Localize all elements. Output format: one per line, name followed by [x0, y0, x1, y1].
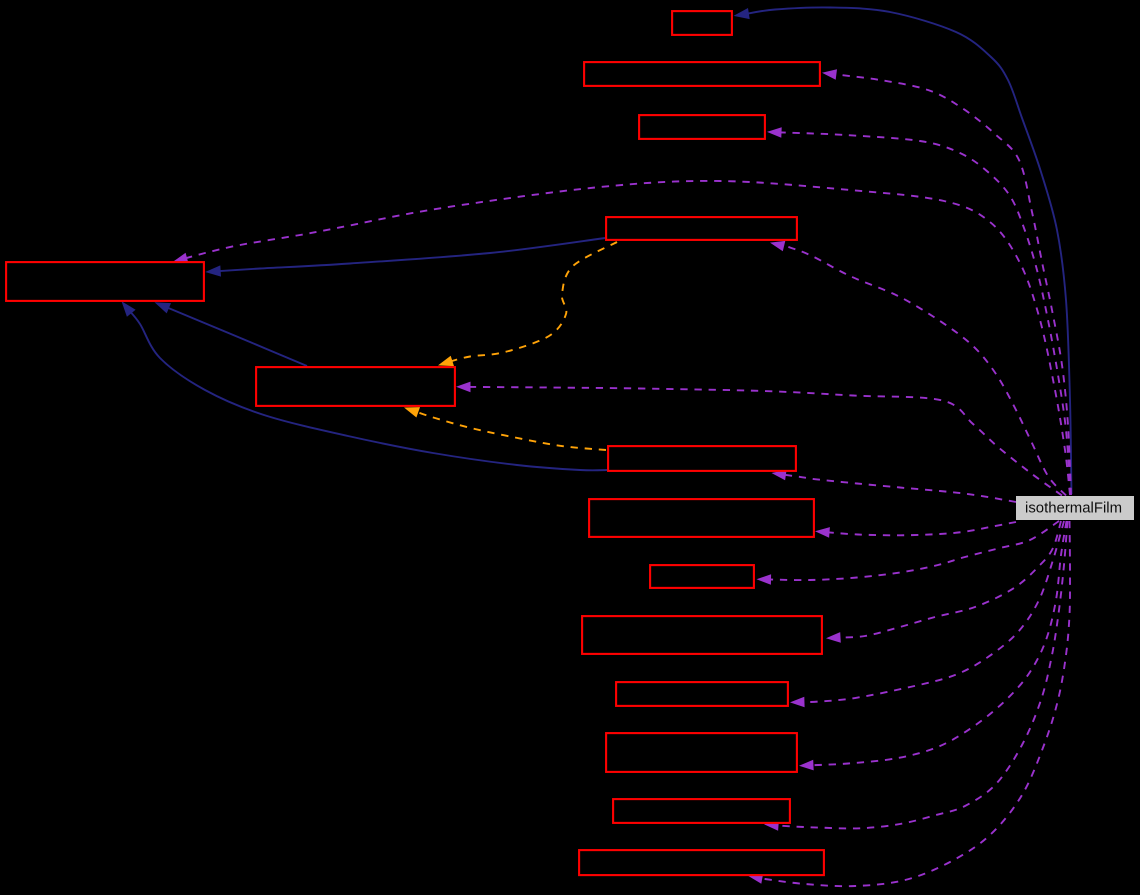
inheritance edge node6 -> node5: [155, 302, 308, 366]
usage edge isothermalFilm -> node6: [456, 382, 1062, 496]
template edge node4 -> node6: [438, 242, 617, 366]
class box node4: [606, 217, 797, 240]
usage edge isothermalFilm -> node11: [790, 521, 1064, 707]
svg-text:isothermalFilm: isothermalFilm: [1025, 501, 1122, 517]
class box node13: [613, 799, 790, 823]
template edge node7 -> node6: [404, 407, 606, 450]
inheritance edge node4 -> node5: [205, 238, 605, 277]
class box node11: [616, 682, 788, 706]
class box node6: [256, 367, 455, 406]
usage edge isothermalFilm -> node5: [173, 181, 1070, 495]
usage edge isothermalFilm -> node14: [748, 521, 1070, 886]
class box node14: [579, 850, 824, 875]
class box node12: [606, 733, 797, 772]
class box node10: [582, 616, 822, 654]
class box node9: [650, 565, 754, 588]
class box node3: [639, 115, 765, 139]
usage edge isothermalFilm -> node12: [799, 521, 1067, 770]
usage edge isothermalFilm -> node8: [815, 522, 1016, 538]
usage edge isothermalFilm -> node3: [767, 127, 1071, 495]
inheritance edge isothermalFilm -> node1: [734, 7, 1072, 494]
class box node1: [672, 11, 732, 35]
class box node7: [608, 446, 796, 471]
usage edge isothermalFilm -> node2: [822, 69, 1071, 495]
usage edge isothermalFilm -> node13: [764, 521, 1068, 831]
usage edge isothermalFilm -> node10: [826, 521, 1061, 643]
usage edge isothermalFilm -> node7: [772, 470, 1017, 502]
inheritance edge node7 -> node5: [122, 301, 608, 470]
usage edge isothermalFilm -> node4: [770, 241, 1066, 496]
class box node5: [6, 262, 204, 301]
class box node8: [589, 499, 814, 537]
node isothermalFilm (current class): [1016, 496, 1134, 520]
usage edge isothermalFilm -> node9: [757, 521, 1060, 585]
class box node2: [584, 62, 820, 86]
